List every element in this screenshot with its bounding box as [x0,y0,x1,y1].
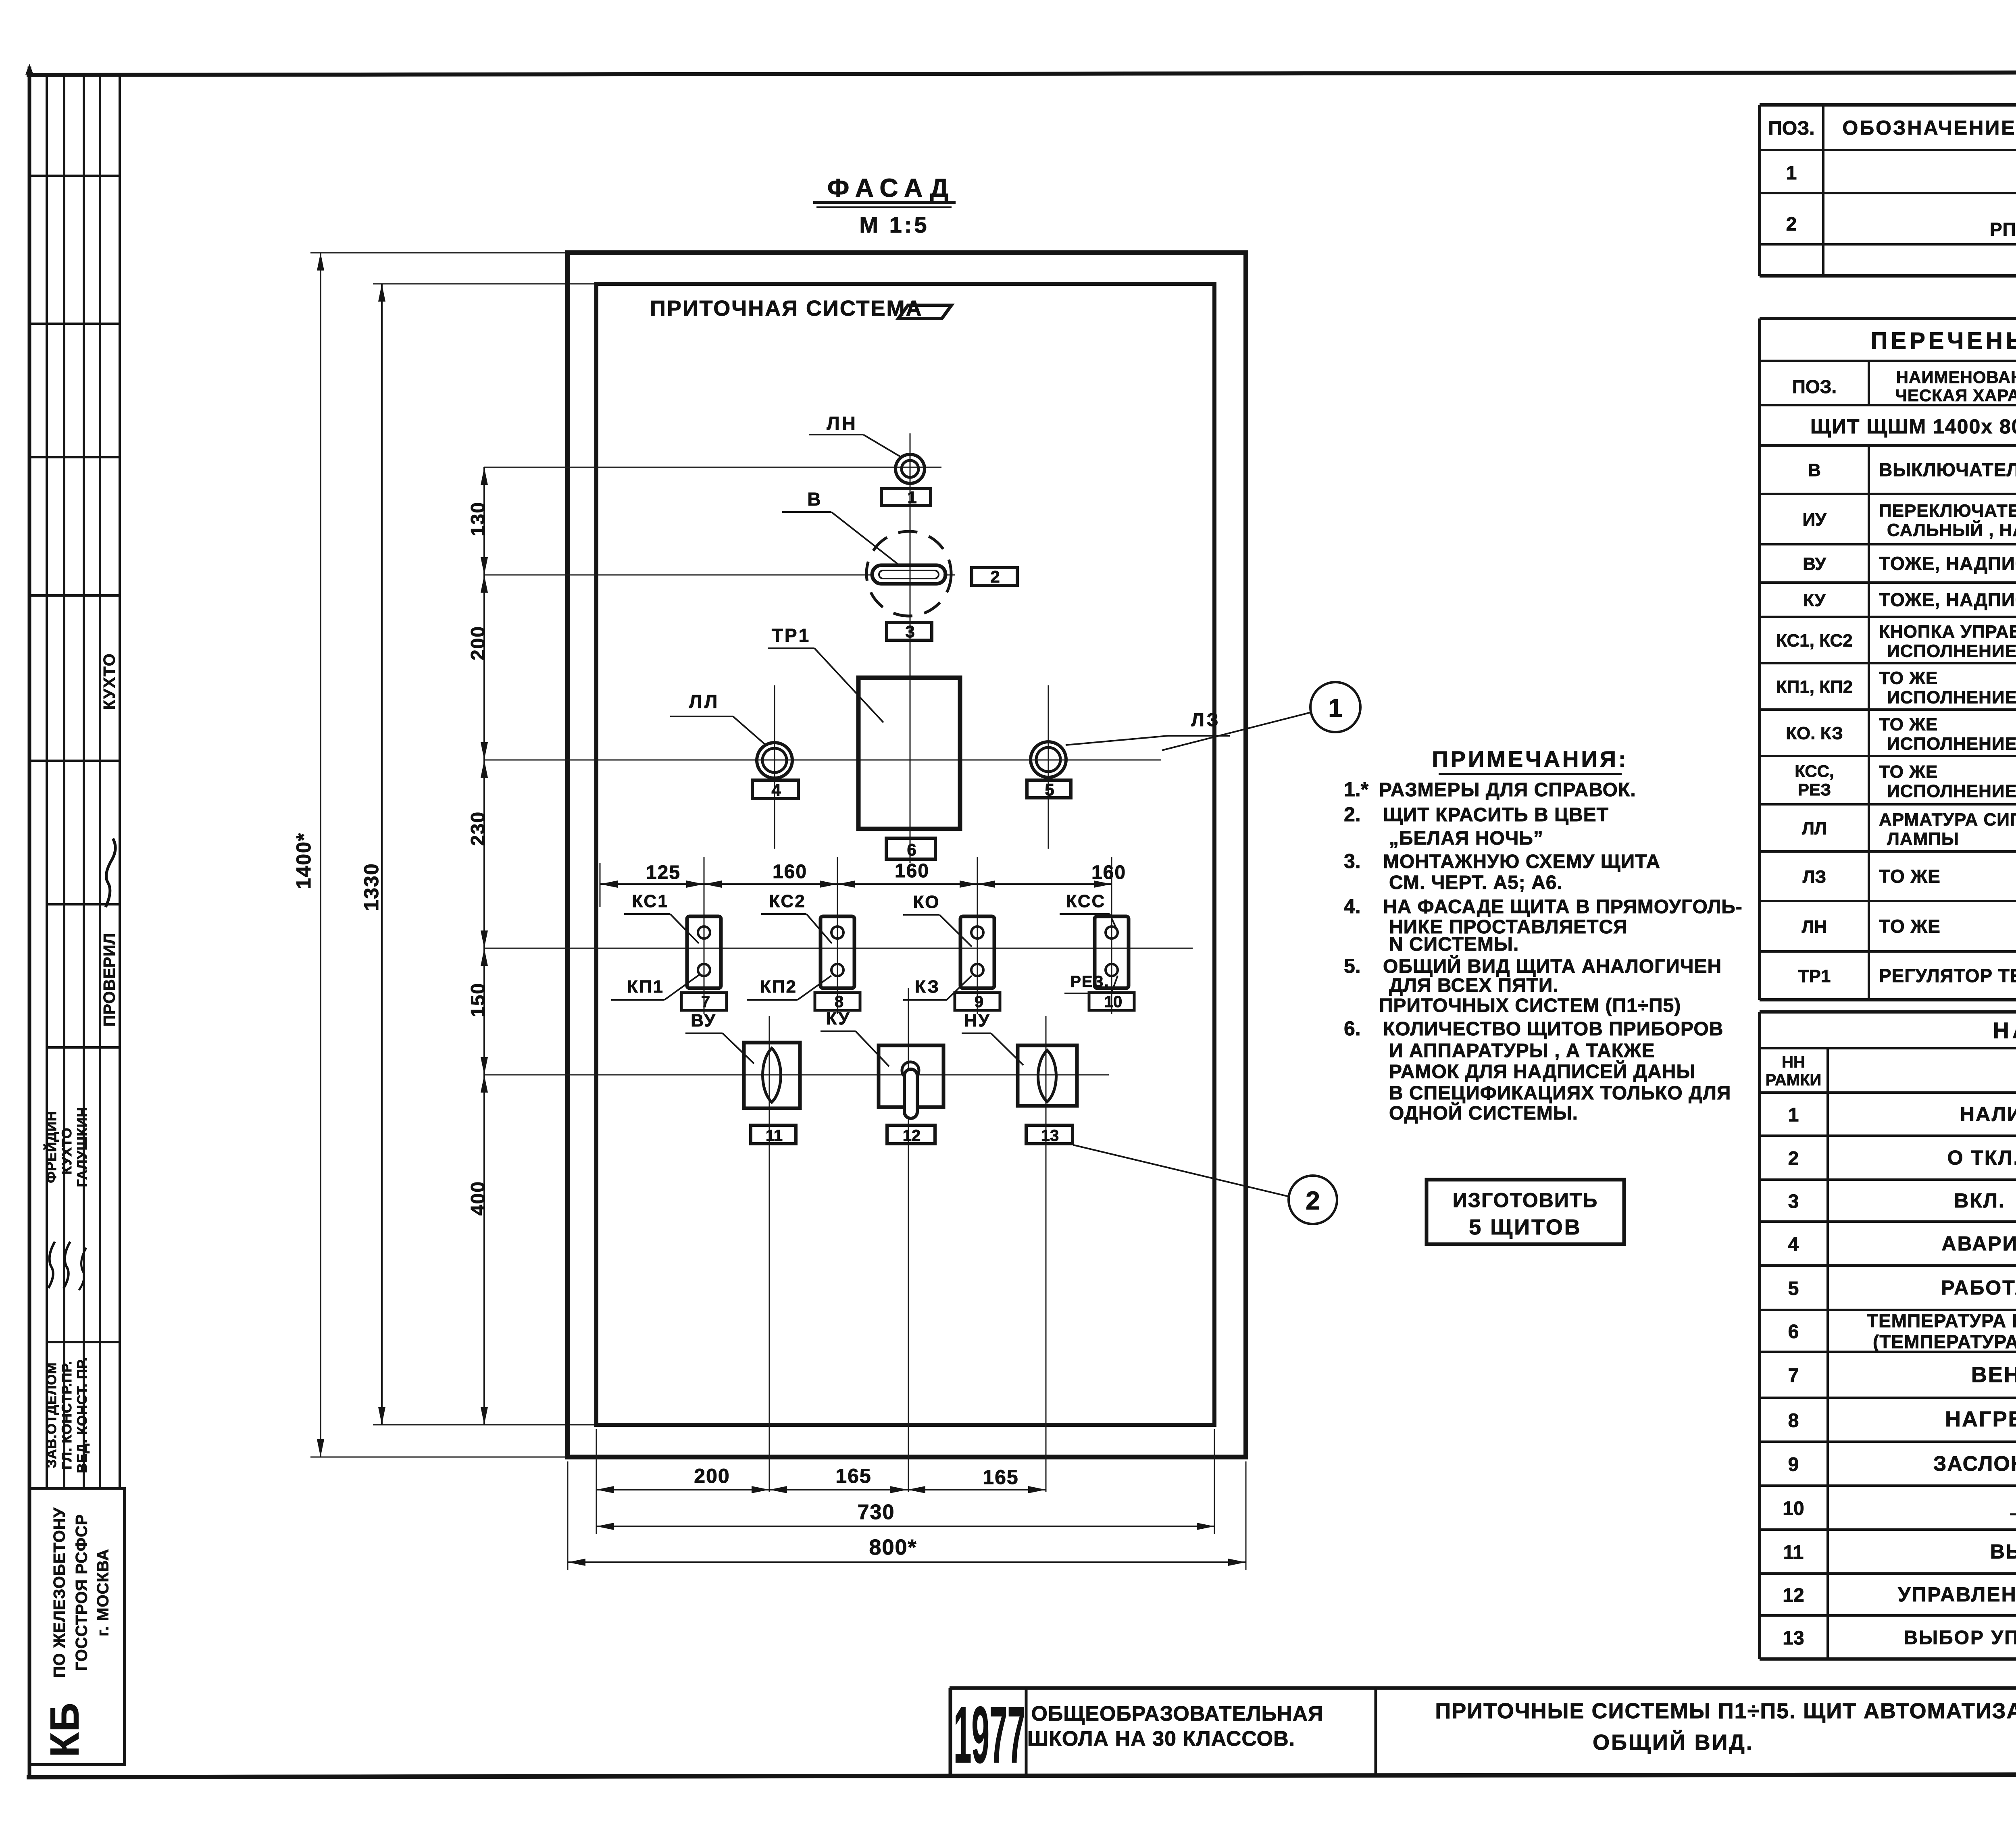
svg-text:ПРОВЕРИЛ: ПРОВЕРИЛ [101,933,119,1026]
svg-text:КП1: КП1 [627,977,664,997]
svg-text:ЩИТ КРАСИТЬ В ЦВЕТ: ЩИТ КРАСИТЬ В ЦВЕТ [1383,804,1609,826]
svg-text:ПЕРЕЧЕНЬ ПРИБОРОВ И АППА: ПЕРЕЧЕНЬ ПРИБОРОВ И АППАРАТУРЫ [1871,328,2016,354]
svg-text:И АППАРАТУРЫ , А ТАКЖЕ: И АППАРАТУРЫ , А ТАКЖЕ [1389,1040,1655,1062]
svg-text:ЛН: ЛН [827,413,858,434]
svg-text:12: 12 [903,1127,921,1145]
svg-text:НАГРЕВАТЕЛЬ: НАГРЕВАТЕЛЬ [1945,1407,2016,1431]
svg-text:400: 400 [468,1181,489,1216]
svg-text:7: 7 [701,993,710,1011]
frame 11 [751,1125,796,1144]
svg-text:2.: 2. [1344,803,1361,826]
svg-text:130: 130 [468,502,489,536]
packet switch V dashed circle [866,531,951,616]
frame 6 [886,838,935,859]
svg-text:1: 1 [1788,1105,1799,1126]
svg-text:ТОЖЕ, НАДПИСЬ Н46: ТОЖЕ, НАДПИСЬ Н46 [1879,553,2016,574]
centerline column D buttons [1111,857,1112,1014]
svg-text:ВЫБОР УПРАВЛЕНИЯ: ВЫБОР УПРАВЛЕНИЯ [1990,1540,2016,1563]
title block year 1977 [954,1690,1025,1780]
centerline column lamp LZ [1048,685,1049,849]
svg-text:9: 9 [1788,1454,1799,1476]
svg-text:КС2: КС2 [769,891,806,911]
centerline column VU [769,1016,770,1492]
svg-text:7: 7 [1788,1365,1799,1386]
svg-text:11: 11 [1783,1542,1804,1563]
lamp LN [896,454,925,483]
svg-text:ОДНОЙ СИСТЕМЫ.: ОДНОЙ СИСТЕМЫ. [1389,1102,1578,1124]
svg-text:РАМОК ДЛЯ НАДПИСЕЙ ДАНЫ: РАМОК ДЛЯ НАДПИСЕЙ ДАНЫ [1389,1060,1695,1082]
svg-text:ПРИТОЧНЫХ СИСТЕМ (П1÷П5): ПРИТОЧНЫХ СИСТЕМ (П1÷П5) [1379,995,1681,1016]
svg-text:9: 9 [975,993,983,1011]
svg-text:КО. КЗ: КО. КЗ [1786,724,1843,743]
stamp bottom block frame [28,1487,126,1490]
svg-text:КУХТО: КУХТО [101,653,119,710]
svg-text:200: 200 [694,1465,730,1487]
svg-text:ФАСАД: ФАСАД [827,173,955,202]
svg-text:ТО ЖЕ: ТО ЖЕ [1879,866,1941,887]
make 5 panels box [1427,1180,1624,1244]
svg-text:РАМКИ: РАМКИ [1766,1071,1822,1089]
svg-text:ПРИТОЧНАЯ СИСТЕМА: ПРИТОЧНАЯ СИСТЕМА [650,296,923,321]
svg-text:ВЕНТИЛЯТОР: ВЕНТИЛЯТОР [1971,1363,2016,1387]
title block frame [950,1686,2016,1690]
centerline column NU [1045,1016,1047,1492]
svg-text:ШКОЛА НА 30 КЛАССОВ.: ШКОЛА НА 30 КЛАССОВ. [1027,1727,1295,1751]
svg-text:160: 160 [895,860,929,882]
svg-text:„БЕЛАЯ НОЧЬ”: „БЕЛАЯ НОЧЬ” [1389,828,1543,849]
callout circle 1 [1310,682,1360,732]
table 2 devices grid [1760,317,2016,320]
svg-text:ЛЗ: ЛЗ [1191,709,1220,730]
svg-text:10: 10 [1104,993,1123,1011]
svg-text:ВУ: ВУ [691,1011,716,1030]
svg-text:200: 200 [468,626,489,660]
frame 9 [955,993,1000,1010]
svg-text:ИЗГОТОВИТЬ: ИЗГОТОВИТЬ [1453,1189,1598,1211]
svg-text:1977: 1977 [954,1690,1025,1780]
svg-text:5.: 5. [1344,955,1361,977]
svg-text:5: 5 [1788,1278,1799,1299]
svg-text:ЛАМПЫ: ЛАМПЫ [1887,829,1959,849]
svg-text:РЕЗ: РЕЗ [1798,780,1831,799]
lamp LL [757,743,792,778]
svg-text:ТР1: ТР1 [1798,966,1831,986]
svg-text:ВЫКЛЮЧАТЕЛЬ ПАКЕТНЫЙ: ВЫКЛЮЧАТЕЛЬ ПАКЕТНЫЙ [1879,459,2016,480]
svg-text:N СИСТЕМЫ.: N СИСТЕМЫ. [1389,934,1519,955]
svg-text:2: 2 [1788,1148,1799,1170]
svg-text:8: 8 [1788,1410,1799,1432]
svg-text:ПОЗ.: ПОЗ. [1792,376,1837,397]
svg-text:РПМ- 55 ОМ 347- 65: РПМ- 55 ОМ 347- 65 [1990,219,2016,240]
svg-text:ВЕД. КОНСТ. ПР.: ВЕД. КОНСТ. ПР. [75,1357,90,1473]
sheet frame bottom line [27,1774,2016,1777]
svg-text:ИСПОЛНЕНИЕ 24: ИСПОЛНЕНИЕ 24 [1887,688,2016,708]
switch NU body [1018,1045,1077,1106]
svg-text:1: 1 [1328,693,1343,722]
svg-text:(ТЕМПЕРАТУРА ВОЗДУХА В П: (ТЕМПЕРАТУРА ВОЗДУХА В ПОМЕЩЕНИИ) [1873,1331,2016,1352]
svg-text:КСС,: КСС, [1795,762,1834,781]
frame 10 [1089,993,1134,1010]
svg-text:5 ЩИТОВ: 5 ЩИТОВ [1469,1215,1582,1239]
stamp strip horizontal dividers [28,175,120,177]
svg-text:1: 1 [1786,162,1797,184]
centerline row switches [484,1074,1109,1076]
svg-text:КНОПКА УПРАВЛЕНИЯ: КНОПКА УПРАВЛЕНИЯ [1879,622,2016,642]
sheet frame left line [28,67,31,1779]
svg-text:1400*: 1400* [292,833,315,889]
svg-text:АРМАТУРА СИГНАЛЬНОЙ: АРМАТУРА СИГНАЛЬНОЙ [1879,809,2016,830]
svg-text:4.: 4. [1344,895,1361,918]
svg-text:10: 10 [1783,1498,1804,1520]
svg-text:КЗ: КЗ [915,977,940,997]
svg-text:ОБЩЕОБРАЗОВАТЕЛЬНАЯ: ОБЩЕОБРАЗОВАТЕЛЬНАЯ [1031,1702,1323,1726]
svg-text:ДЛЯ ВСЕХ ПЯТИ.: ДЛЯ ВСЕХ ПЯТИ. [1389,975,1559,996]
svg-text:ТО ЖЕ: ТО ЖЕ [1879,715,1938,735]
svg-text:160: 160 [1091,862,1126,883]
svg-text:РЕГУЛЯТОР ТЕМПЕРАТУРЫ: РЕГУЛЯТОР ТЕМПЕРАТУРЫ [1879,965,2016,986]
svg-text:КП2: КП2 [760,977,797,997]
svg-text:ИСПОЛНЕНИЕ 23: ИСПОЛНЕНИЕ 23 [1887,641,2016,661]
svg-text:ТЕМПЕРАТУРА ПРИТОЧНОГО ВОЗ: ТЕМПЕРАТУРА ПРИТОЧНОГО ВОЗДУХА. [1867,1310,2016,1331]
frame 2 [972,568,1017,585]
table 1 specification grid [1760,103,2016,107]
svg-text:150: 150 [468,982,489,1017]
frame 3 [887,622,932,640]
svg-text:М 1:5: М 1:5 [859,212,929,237]
centerline column KU lower [908,988,909,1492]
system number parallelogram [898,305,952,318]
frame 1 [881,489,931,506]
svg-text:КУ: КУ [826,1009,850,1028]
table 3 inscriptions grid [1760,1010,2016,1014]
centerline column A buttons [704,857,705,1014]
svg-text:4: 4 [771,781,781,799]
svg-text:12: 12 [1783,1585,1804,1606]
svg-text:В СПЕЦИФИКАЦИЯХ ТОЛЬКО ДЛЯ: В СПЕЦИФИКАЦИЯХ ТОЛЬКО ДЛЯ [1389,1082,1731,1104]
svg-text:СМ. ЧЕРТ. А5; А6.: СМ. ЧЕРТ. А5; А6. [1389,872,1563,893]
svg-text:ГЛ. КОНСТР.ПР.: ГЛ. КОНСТР.ПР. [59,1361,75,1470]
centerline column B buttons [837,857,838,1014]
svg-text:4: 4 [1788,1234,1799,1255]
svg-text:6: 6 [907,840,916,859]
svg-text:ОБЩИЙ ВИД ЩИТА АНАЛОГИЧЕН: ОБЩИЙ ВИД ЩИТА АНАЛОГИЧЕН [1383,955,1722,977]
dimension 800 line [568,1561,1246,1563]
centerline column center [910,433,911,863]
cabinet outer rectangle [568,253,1246,1457]
dimension chain buttons line [600,883,1112,885]
stamp signature 3 [64,1242,70,1288]
svg-text:ЛЗ: ЛЗ [1803,867,1826,887]
centerline row V [484,575,874,576]
extension lines bottom [567,1461,569,1570]
svg-text:ТР1: ТР1 [772,625,810,646]
svg-text:ЛЛ: ЛЛ [1802,819,1827,839]
svg-text:ИУ: ИУ [1803,510,1827,530]
svg-text:ЩИТ ЩШМ 1400х 800 х 600: ЩИТ ЩШМ 1400х 800 х 600 ГОСТ 3244-68 [1810,415,2016,438]
svg-text:ГАЛУШКИН: ГАЛУШКИН [75,1107,90,1187]
frame 5 [1027,780,1071,798]
extension line inner left upper [600,863,601,907]
svg-text:ПРИМЕЧАНИЯ:: ПРИМЕЧАНИЯ: [1432,746,1628,772]
svg-text:1.*: 1.* [1344,778,1369,801]
stamp signature 1 [106,839,115,907]
lamp LZ [1031,742,1066,777]
svg-text:ВКЛ.: ВКЛ. [1954,1189,2006,1212]
svg-text:НА ФАСАДЕ ЩИТА В ПРЯМОУГОЛЬ-: НА ФАСАДЕ ЩИТА В ПРЯМОУГОЛЬ- [1383,896,1743,918]
temperature regulator TR1 [858,678,960,829]
dimension 1400 line [320,253,321,1457]
svg-text:6: 6 [1788,1321,1799,1343]
button KS2 body [821,916,854,988]
stamp signature 2 [48,1242,55,1288]
stamp strip verticals [46,76,48,1488]
svg-text:ЗАВ.ОТДЕЛОМ: ЗАВ.ОТДЕЛОМ [44,1362,59,1468]
svg-text:В: В [807,489,821,510]
button KO body [960,916,994,988]
svg-text:1: 1 [907,488,916,507]
svg-text:В: В [1808,460,1821,480]
svg-text:ЗАСЛОНКА УТЕПЛ.: ЗАСЛОНКА УТЕПЛ. [1933,1452,2016,1476]
svg-text:РАЗМЕРЫ ДЛЯ СПРАВОК.: РАЗМЕРЫ ДЛЯ СПРАВОК. [1379,779,1636,801]
svg-text:ГОССТРОЯ РСФСР: ГОССТРОЯ РСФСР [73,1514,91,1671]
svg-text:ВЫБОР УПРАВЛЕНИЯ КЛАПАНОМ Н: ВЫБОР УПРАВЛЕНИЯ КЛАПАНОМ НА ТЕПЛОНОСИТЕ… [1904,1627,2016,1649]
svg-text:НН: НН [1782,1053,1805,1071]
svg-text:МОНТАЖНУЮ СХЕМУ ЩИТА: МОНТАЖНУЮ СХЕМУ ЩИТА [1383,851,1660,872]
packet switch V handle [872,565,946,584]
frame 7 [681,993,727,1010]
svg-text:НАИМЕНОВАНИЕ И ТЕХНИ-: НАИМЕНОВАНИЕ И ТЕХНИ- [1896,368,2016,387]
svg-text:ОБОЗНАЧЕНИЕ: ОБОЗНАЧЕНИЕ [1842,117,2016,139]
frame 12 [887,1125,935,1144]
stamp signature 4 [79,1248,86,1290]
svg-text:КСС: КСС [1066,891,1106,911]
svg-text:ПРИТОЧНЫЕ СИСТЕМЫ П1÷П5.: ПРИТОЧНЫЕ СИСТЕМЫ П1÷П5. ЩИТ АВТОМАТИЗАЦ… [1435,1699,2016,1723]
frame 13 [1026,1125,1073,1144]
svg-text:3: 3 [905,622,914,641]
svg-text:ФРЕЙДИН: ФРЕЙДИН [44,1111,59,1183]
svg-text:ИСПОЛНЕНИЕ 18: ИСПОЛНЕНИЕ 18 [1887,781,2016,801]
centerline column C buttons [977,857,978,1014]
frame 8 [815,993,860,1010]
centerline row buttons [484,948,1193,949]
svg-text:2: 2 [1306,1186,1320,1215]
switch VU body [744,1043,800,1108]
svg-text:КБ: КБ [42,1702,87,1757]
svg-text:КП1, КП2: КП1, КП2 [1776,677,1853,697]
svg-text:АВАРИЯ: АВАРИЯ [1941,1232,2016,1255]
sheet frame top line [27,72,2016,75]
callout circle 2 [1289,1176,1337,1224]
svg-text:НАДПИСИ В РАМКАХ: НАДПИСИ В РАМКАХ [1993,1018,2016,1043]
svg-text:ТО ЖЕ: ТО ЖЕ [1879,916,1941,937]
svg-text:РЕЗ.: РЕЗ. [1070,973,1110,991]
sheet frame corner tick [25,64,33,75]
switch KU body [879,1045,943,1107]
svg-text:230: 230 [468,811,489,846]
svg-text:КУХТО: КУХТО [59,1128,75,1175]
svg-text:НАЛИЧИЕ НАПРЯЖЕНИЯ: НАЛИЧИЕ НАПРЯЖЕНИЯ [1960,1103,2016,1126]
svg-text:ИСПОЛНЕНИЕ 19: ИСПОЛНЕНИЕ 19 [1887,734,2016,754]
svg-text:160: 160 [773,861,807,883]
svg-text:8: 8 [835,993,843,1011]
svg-text:г. МОСКВА: г. МОСКВА [94,1549,112,1636]
svg-text:5: 5 [1045,780,1054,799]
centerline row LN [484,467,941,468]
title block verticals [1025,1688,1028,1776]
svg-text:2: 2 [1786,214,1797,235]
cabinet inner door rectangle [596,284,1214,1425]
svg-text:6.: 6. [1344,1017,1361,1040]
svg-text:ОБЩИЙ ВИД.: ОБЩИЙ ВИД. [1593,1730,1754,1755]
svg-text:ПОЗ.: ПОЗ. [1768,118,1814,139]
svg-text:КО: КО [913,892,940,912]
button KSS body [1095,916,1129,988]
svg-text:ПЕРЕКЛЮЧАТЕЛЬ УНИВЕР-: ПЕРЕКЛЮЧАТЕЛЬ УНИВЕР- [1879,501,2016,521]
svg-text:НУ: НУ [964,1011,990,1030]
svg-text:УПРАВЛЕНИЕ КЛАПАНОМ НА ТЕ: УПРАВЛЕНИЕ КЛАПАНОМ НА ТЕПЛОНОСИТЕЛЕ [1898,1583,2016,1606]
svg-text:ЛЛ: ЛЛ [689,691,720,712]
svg-text:730: 730 [858,1501,895,1524]
svg-text:САЛЬНЫЙ , НАДПИСЬ Н 24: САЛЬНЫЙ , НАДПИСЬ Н 24 [1887,520,2016,540]
frame 4 [752,780,798,799]
dimension 730 line [596,1526,1214,1527]
dimension chain left line [483,467,485,1425]
svg-text:КС1: КС1 [632,891,669,911]
svg-text:ПО ЖЕЛЕЗОБЕТОНУ: ПО ЖЕЛЕЗОБЕТОНУ [51,1507,69,1678]
centerline row lamps [484,760,1161,761]
svg-text:ТО ЖЕ: ТО ЖЕ [1879,668,1938,688]
svg-text:КС1, КС2: КС1, КС2 [1776,631,1853,651]
button KS1 body [687,916,721,988]
svg-text:125: 125 [646,862,681,883]
svg-text:3.: 3. [1344,850,1361,872]
svg-text:ТОЖЕ, НАДПИСЬ Н 36: ТОЖЕ, НАДПИСЬ Н 36 [1879,589,2016,610]
dimension chain bottom line [596,1489,1046,1490]
svg-text:13: 13 [1041,1127,1059,1145]
svg-text:РАБОТА: РАБОТА [1941,1276,2016,1299]
svg-text:ЛН: ЛН [1802,917,1827,937]
svg-text:ЧЕСКАЯ ХАРАКТЕРИСТИКА: ЧЕСКАЯ ХАРАКТЕРИСТИКА [1895,386,2016,405]
svg-text:КУ: КУ [1803,591,1826,610]
svg-text:1330: 1330 [360,863,383,911]
svg-text:165: 165 [835,1465,871,1487]
centerline column lamp LL [774,685,775,849]
dimension 1330 line [381,284,383,1425]
svg-text:О ТКЛ.: О ТКЛ. [1947,1147,2016,1169]
svg-text:13: 13 [1783,1628,1804,1649]
svg-text:2: 2 [990,567,1000,586]
svg-text:165: 165 [983,1466,1018,1488]
svg-text:3: 3 [1788,1191,1799,1212]
svg-text:ВУ: ВУ [1803,554,1826,574]
svg-text:ТО ЖЕ: ТО ЖЕ [1879,762,1938,782]
svg-text:11: 11 [766,1127,783,1145]
svg-text:800*: 800* [869,1535,917,1559]
svg-text:КОЛИЧЕСТВО ЩИТОВ ПРИБОРОВ: КОЛИЧЕСТВО ЩИТОВ ПРИБОРОВ [1383,1018,1723,1040]
